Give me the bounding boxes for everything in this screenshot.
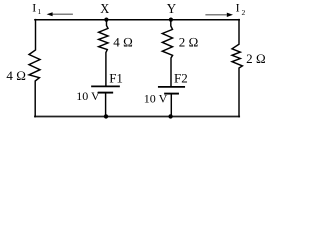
wire bottom rail	[35, 116, 239, 118]
svg-text:2: 2	[242, 8, 246, 17]
resistor R1 4 ohm left branch with wires	[29, 20, 40, 117]
battery F2 top plate (long)	[159, 86, 184, 88]
svg-text:F2: F2	[174, 70, 188, 85]
wire top rail X-Y	[35, 19, 239, 21]
svg-text:10 V: 10 V	[144, 92, 168, 106]
node X junction dot top	[104, 18, 108, 22]
svg-text:Y: Y	[167, 2, 176, 17]
svg-text:X: X	[100, 2, 109, 17]
node Y junction dot top	[169, 18, 173, 22]
junction dot bottom branch Y	[168, 114, 172, 118]
svg-text:10 V: 10 V	[76, 89, 100, 103]
svg-text:I: I	[236, 1, 240, 15]
svg-text:F1: F1	[109, 70, 123, 85]
battery F2 bottom plate (short)	[165, 93, 178, 95]
current arrow I1 (pointing left)	[52, 13, 73, 15]
battery F1 bottom plate (short)	[99, 92, 113, 94]
wire battery F1 to bottom rail	[105, 93, 107, 116]
resistor R3 2 ohm branch Y upper	[162, 20, 172, 87]
svg-text:I: I	[32, 1, 36, 15]
svg-text:4 Ω: 4 Ω	[113, 34, 133, 49]
svg-text:1: 1	[38, 7, 42, 16]
svg-text:4 Ω: 4 Ω	[6, 68, 26, 83]
wire battery F2 to bottom rail	[170, 94, 172, 117]
svg-text:2 Ω: 2 Ω	[246, 51, 266, 66]
battery F1 top plate (long)	[92, 85, 119, 87]
junction dot bottom branch X	[104, 114, 108, 118]
current arrow I2 (pointing right)	[205, 14, 226, 16]
svg-text:2 Ω: 2 Ω	[179, 34, 199, 49]
resistor R4 2 ohm right branch with wires	[232, 20, 242, 117]
resistor R2 4 ohm branch X upper	[99, 20, 108, 86]
